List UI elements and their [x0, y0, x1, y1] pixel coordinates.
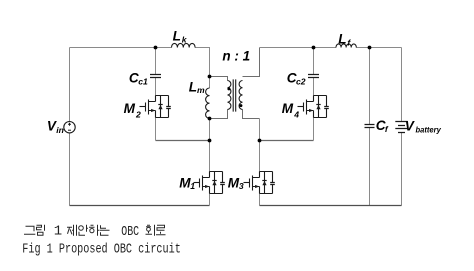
- svg-text:M: M: [282, 101, 294, 116]
- wire top-right horizontal: [260, 47, 337, 49]
- wire Cf top stub: [369, 48, 371, 125]
- wire M2 below: [155, 118, 157, 141]
- junction node Cf tap: [368, 46, 372, 50]
- svg-text:1: 1: [54, 224, 62, 240]
- inductor Lf: [336, 44, 356, 48]
- junction node S1 (M3 drain): [258, 139, 262, 143]
- transformer T1 primary winding: [228, 81, 231, 110]
- hangul 로: [156, 225, 166, 235]
- svg-text:3: 3: [239, 181, 244, 191]
- wire left rail upper: [69, 48, 71, 122]
- wire Lm bottom rail: [209, 119, 211, 141]
- svg-text:c2: c2: [296, 76, 306, 86]
- junction node Cc2 tap: [312, 46, 316, 50]
- wire M1 source to bus: [209, 194, 211, 206]
- inductor Lm: [206, 88, 210, 118]
- wire Lk to transformer corner: [195, 48, 209, 77]
- svg-text:M: M: [124, 101, 136, 116]
- hangul 는: [100, 225, 110, 235]
- hangul 하: [89, 225, 99, 236]
- inductor Lk: [172, 43, 196, 47]
- wire Cc2 to top wire: [313, 48, 315, 75]
- capacitor Cc1: [150, 75, 161, 78]
- wire battery top stub: [401, 48, 403, 122]
- wire M4 below: [313, 118, 315, 141]
- svg-text:battery: battery: [416, 125, 442, 135]
- wire Lf to battery corner: [356, 47, 401, 49]
- hangul 그: [24, 226, 35, 234]
- svg-text:c1: c1: [138, 76, 148, 86]
- hangul 안: [79, 225, 88, 236]
- wire Lm top stub: [209, 77, 211, 89]
- svg-text:f: f: [385, 124, 389, 134]
- svg-text:n : 1: n : 1: [222, 49, 250, 64]
- wire Cc1 to top node: [155, 48, 157, 75]
- svg-text:L: L: [189, 80, 197, 95]
- svg-text:1: 1: [190, 181, 195, 191]
- transistor M3: [244, 172, 275, 194]
- wire secondary top link: [243, 48, 260, 77]
- svg-text:in: in: [56, 125, 64, 135]
- capacitor Cc2: [308, 75, 319, 78]
- wire Cf bottom stub: [369, 128, 371, 206]
- wire left rail lower: [69, 133, 71, 206]
- polarity dot secondary: [239, 104, 242, 107]
- capacitor Cf: [365, 125, 375, 128]
- battery Vbattery: [395, 122, 407, 133]
- wire link node S1 to M4-leg: [260, 140, 314, 142]
- caption line 1: Korean "그림 1 제안하는 OBC 회로" drawn as strokes: [24, 225, 166, 236]
- svg-text:L: L: [338, 31, 346, 46]
- wire M3 source to bus: [259, 194, 261, 206]
- hangul 림: [37, 225, 45, 236]
- wire link M2-leg to node P1: [156, 140, 210, 142]
- junction node Lm top: [208, 75, 212, 79]
- svg-text:k: k: [182, 34, 188, 44]
- wire M2 above to Cc1: [155, 78, 157, 96]
- transformer T1 core: [233, 79, 236, 111]
- wire top-left horizontal: [70, 47, 172, 49]
- transistor M1: [194, 172, 225, 194]
- junction node Lm bottom: [208, 117, 212, 121]
- wire M4 above to Cc2: [313, 78, 315, 96]
- wire primary top link: [210, 77, 228, 81]
- polarity dot primary: [227, 87, 230, 90]
- svg-text:4: 4: [293, 110, 299, 120]
- junction node top-left (Cc1 tap): [154, 46, 158, 50]
- wire bottom-right bus: [260, 205, 402, 207]
- wire M3 drain rail: [259, 141, 261, 172]
- svg-text:Fig 1 Proposed OBC circuit: Fig 1 Proposed OBC circuit: [22, 242, 181, 258]
- transformer T1 secondary winding: [239, 81, 242, 110]
- transistor M4: [298, 96, 329, 118]
- wire bottom-left bus: [70, 205, 210, 207]
- svg-text:2: 2: [135, 110, 141, 120]
- svg-text:m: m: [197, 85, 205, 95]
- wire battery bottom stub: [401, 133, 403, 206]
- svg-text:L: L: [173, 29, 181, 44]
- wire M1 drain rail: [209, 141, 211, 172]
- wire primary bottom link: [210, 110, 228, 119]
- hangul 제: [67, 225, 77, 236]
- transistor M2: [140, 96, 171, 118]
- hangul 회: [146, 225, 155, 236]
- source Vin (DC source circle): [64, 122, 75, 133]
- wire right rail mid: [259, 119, 261, 141]
- svg-text:V: V: [405, 119, 416, 134]
- junction node P1 (M1 drain): [208, 139, 212, 143]
- wire secondary bottom link: [243, 110, 260, 119]
- svg-text:OBC: OBC: [121, 224, 139, 240]
